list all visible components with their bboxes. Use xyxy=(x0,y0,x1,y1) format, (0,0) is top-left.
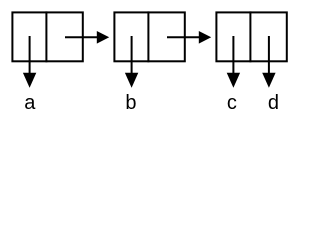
wire: cell 3 car pointer stem xyxy=(232,36,234,74)
cell 2 divider xyxy=(147,11,149,62)
arrowhead: cell 2 car pointer to b xyxy=(125,73,138,88)
arrowhead: cell 1 car pointer to a xyxy=(23,73,36,88)
arrowhead: cell 3 cdr pointer to d xyxy=(262,73,275,88)
wire: cell 2 cdr pointer stem xyxy=(167,36,201,38)
cons cell box 3 xyxy=(216,12,286,61)
cell 3 divider xyxy=(249,11,251,62)
wire: cell 2 car pointer stem xyxy=(131,36,133,74)
cell 1 divider xyxy=(45,11,47,62)
arrowhead: cell 2 cdr pointer to cell 3 xyxy=(199,31,211,44)
arrowhead: cell 3 car pointer to c xyxy=(227,73,240,88)
wire: cell 3 cdr pointer stem xyxy=(268,36,270,74)
svg-text:d: d xyxy=(268,92,279,114)
svg-text:c: c xyxy=(227,92,237,114)
svg-text:b: b xyxy=(125,92,136,114)
wire: cell 1 cdr pointer stem xyxy=(65,36,99,38)
wire: cell 1 car pointer stem xyxy=(29,36,31,74)
cons cell box 1 xyxy=(12,12,82,61)
svg-text:a: a xyxy=(24,92,36,114)
cons cell box 2 xyxy=(114,12,184,61)
arrowhead: cell 1 cdr pointer to cell 2 xyxy=(97,31,109,44)
